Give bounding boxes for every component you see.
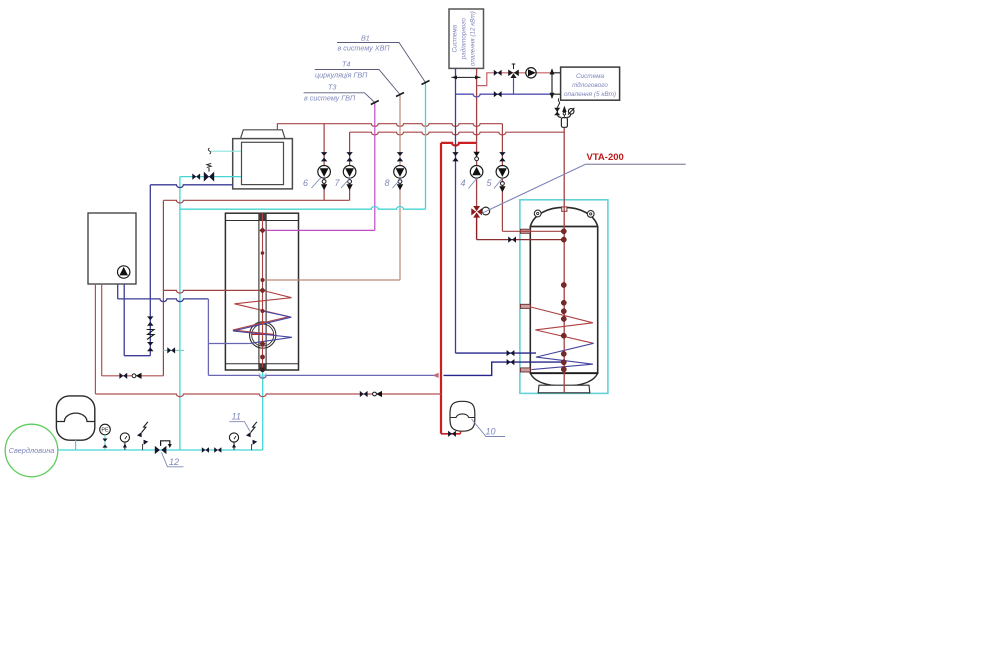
pressure gauge 1 — [120, 433, 129, 450]
VTA-200 thermostatic valve — [471, 206, 489, 218]
valve 12 with actuator — [155, 441, 172, 454]
motor valve — [204, 163, 214, 181]
wire: pump7 line — [349, 132, 351, 200]
svg-text:в систему ГВП: в систему ГВП — [304, 94, 356, 103]
wire: right tank blue coil — [532, 343, 594, 369]
wire: red bus 2 — [350, 132, 565, 135]
wire: navy from radiator vertical into right tank — [456, 352, 537, 354]
wire: floor heating return — [456, 94, 553, 97]
wire: bold red VTA line horizontal — [441, 143, 477, 146]
ball valve above pump 8 — [397, 152, 403, 161]
wire: cyan left vertical (well riser) — [179, 177, 181, 450]
label 11 — [229, 412, 250, 432]
label B1 — [337, 34, 430, 85]
wire: red boiler valve line horizontal — [102, 375, 164, 377]
wire: red vertical from radiator box through pump 4 to VTA — [476, 68, 478, 208]
wire: navy down to tank coil — [207, 299, 209, 376]
check valve below pump 6 — [321, 180, 327, 191]
wire: pump5 outlet into right tank upper nozzle — [502, 230, 563, 232]
ball valve on expansion tank line — [448, 431, 456, 437]
membrane tank stub — [75, 440, 77, 450]
svg-text:опалення (12 кВт): опалення (12 кВт) — [470, 11, 477, 66]
wire: navy return right part — [444, 362, 564, 375]
wire: magenta from tank to T3 — [263, 229, 375, 231]
floor box connector with arrows — [552, 69, 561, 98]
right buffer tank body — [530, 207, 597, 392]
pump 5 — [496, 166, 509, 179]
wire: red bus 1 from heater top — [277, 124, 502, 130]
wire: pump8 line T4 circulation — [399, 95, 401, 280]
wire: brown T4 from tank to pump8 — [263, 279, 401, 281]
buffer/DHW combi tank (left tank) — [225, 213, 298, 370]
floor heating system box — [561, 67, 620, 100]
well circle (Свердловина) — [5, 424, 58, 477]
ball valve on boiler line — [119, 373, 127, 379]
wire: right tank center line + safety riser — [563, 127, 565, 392]
wire: cyan cold water horizontal — [180, 206, 426, 209]
wire: navy into left tank coil — [208, 343, 249, 345]
wire: red boiler line 2 — [101, 284, 103, 376]
wire: navy heater return — [150, 185, 233, 188]
wire: cyan sensor line to heater — [211, 150, 241, 152]
wire: floor heating supply step — [477, 73, 552, 86]
left tank manhole circle — [250, 322, 276, 348]
wire: magenta T3 line — [374, 103, 376, 231]
pump 4 (up) — [470, 166, 483, 179]
svg-text:4: 4 — [461, 178, 466, 188]
svg-text:в систему ХВП: в систему ХВП — [338, 44, 391, 53]
wire: navy filter bottom — [124, 355, 150, 357]
wire: right tank red coil — [530, 307, 593, 343]
svg-text:циркуляція ГВП: циркуляція ГВП — [315, 71, 368, 80]
ball valve on navy filter leg (bottom) — [147, 342, 153, 351]
wire: navy return long (left part, with arrow) — [208, 375, 437, 378]
check valve below pump 8 — [397, 180, 403, 191]
svg-text:Система: Система — [576, 73, 605, 80]
pump 8 — [394, 166, 407, 179]
svg-text:Т3: Т3 — [328, 83, 336, 92]
cyan enclosure box around right tank — [520, 200, 608, 394]
boiler (wall-mounted, left) — [88, 213, 136, 284]
pressure gauge 2 — [229, 433, 238, 450]
pump floor circuit — [526, 68, 536, 78]
ball valve on VTA tank line — [508, 237, 516, 243]
safety valve 11 — [246, 422, 257, 450]
electric heater unit (center-left) — [233, 130, 293, 189]
check valve above pump 4 — [473, 152, 479, 161]
safety valve on well line — [137, 422, 148, 450]
wire: bold red to expansion tank 10 — [441, 433, 461, 435]
wire: VTA line into right tank — [477, 239, 564, 241]
wire: red horizontal to pumps 6,7 — [163, 200, 349, 203]
expansion tank 10 (small) — [450, 401, 475, 431]
svg-text:підлогового: підлогового — [572, 81, 608, 89]
ball valve navy into tank (lower) — [507, 359, 515, 365]
svg-text:11: 11 — [232, 412, 241, 422]
ball valve above pump 6 — [321, 152, 327, 161]
check valve below pump 5 — [499, 182, 505, 193]
node dots right tank — [561, 229, 566, 372]
label 12 — [162, 453, 184, 468]
ball valves pair on well line — [202, 447, 222, 453]
svg-text:VTA-200: VTA-200 — [587, 152, 624, 163]
check valve on boiler line — [132, 373, 141, 379]
check valve on long red line — [373, 391, 382, 397]
wire: cyan B1 vertical — [425, 83, 427, 209]
svg-text:Система: Система — [452, 24, 459, 52]
label 10 — [472, 419, 506, 437]
ball valve on floor return — [494, 91, 502, 97]
left tank coil center bar — [251, 333, 274, 335]
svg-text:PE: PE — [101, 428, 109, 434]
svg-text:В1: В1 — [361, 34, 370, 43]
wire: cyan into heater with valves — [180, 176, 241, 178]
ball valve above pump 7 — [346, 152, 352, 161]
wire: pump6 line — [323, 124, 325, 201]
svg-text:радіаторного: радіаторного — [460, 18, 468, 61]
svg-text:12: 12 — [169, 457, 179, 467]
sensor squiggle — [208, 148, 211, 154]
svg-text:8: 8 — [385, 178, 390, 188]
radiator stub arrows — [452, 76, 481, 78]
wire: navy filter left leg (second boiler stub) — [123, 284, 125, 356]
mixing valve 3-way with actuator (floor circuit) — [508, 64, 519, 78]
wire: expansion tank stub — [460, 431, 462, 434]
ball valve on navy riser — [452, 152, 458, 161]
wire: red boiler supply vertical 1 — [94, 284, 96, 394]
cyan arrow under tank — [259, 373, 266, 377]
ball valve on navy filter leg (top) — [147, 316, 153, 325]
svg-text:Т4: Т4 — [342, 60, 350, 69]
label T3 — [304, 83, 379, 105]
wire: navy boiler stub — [117, 284, 119, 299]
wire: left tank blue coil — [233, 311, 292, 344]
wire: VTA valve outlet down — [476, 216, 478, 240]
label VTA-200 — [482, 152, 686, 214]
svg-text:Свердловина: Свердловина — [9, 446, 55, 455]
right tank top connection stub — [562, 207, 567, 211]
PE expansion circle — [100, 424, 111, 450]
membrane hydro-accumulator (bottom left) — [56, 396, 94, 440]
node dots left tank — [259, 227, 265, 372]
ball valve on teal make-up line — [167, 347, 175, 353]
svg-text:6: 6 — [303, 178, 308, 188]
wire: navy vertical from radiator box — [455, 68, 457, 353]
right tank lifting lugs — [534, 210, 594, 217]
radiator system box (top, rotated text) — [449, 9, 484, 68]
wire: left tank red coil — [233, 290, 292, 334]
ball valve above pump 5 — [499, 152, 505, 161]
ball valve + motor valve on heater cyan line — [192, 174, 200, 180]
pump 6 — [318, 166, 331, 179]
navy return flow arrow — [433, 373, 439, 378]
label T4 — [315, 60, 404, 97]
wire: red into left tank — [163, 290, 261, 293]
check valve below pump 7 — [346, 180, 352, 191]
svg-text:10: 10 — [486, 427, 496, 437]
pump number labels — [303, 178, 503, 189]
boiler internal pump symbol — [118, 266, 130, 278]
wire: left tank center line — [262, 213, 264, 370]
wire: bold red vertical (expansion line) — [440, 143, 442, 434]
ball valve on long red line — [360, 391, 368, 397]
wire: mix valve bottom stem to return — [513, 78, 515, 94]
wire: red long bottom line — [95, 394, 441, 397]
ball valve navy into tank (upper) — [507, 350, 515, 356]
svg-text:опалення (5 кВт): опалення (5 кВт) — [564, 91, 616, 98]
filter strainer — [147, 330, 154, 340]
right tank left nozzles (hatched) — [521, 229, 531, 372]
wire: navy horizontal boiler return — [118, 299, 209, 302]
wire: cyan under left tank — [262, 370, 264, 450]
wire: teal make-up line — [163, 349, 184, 351]
wire: red return riser — [162, 201, 164, 376]
pump 7 — [343, 166, 356, 179]
wire: navy vertical filter leg — [149, 185, 151, 356]
wire: pump5 feed from bus1 — [501, 124, 503, 232]
safety group under floor box — [554, 98, 574, 127]
wire: cyan well horizontal — [58, 449, 263, 451]
ball valve on floor supply — [494, 70, 502, 76]
